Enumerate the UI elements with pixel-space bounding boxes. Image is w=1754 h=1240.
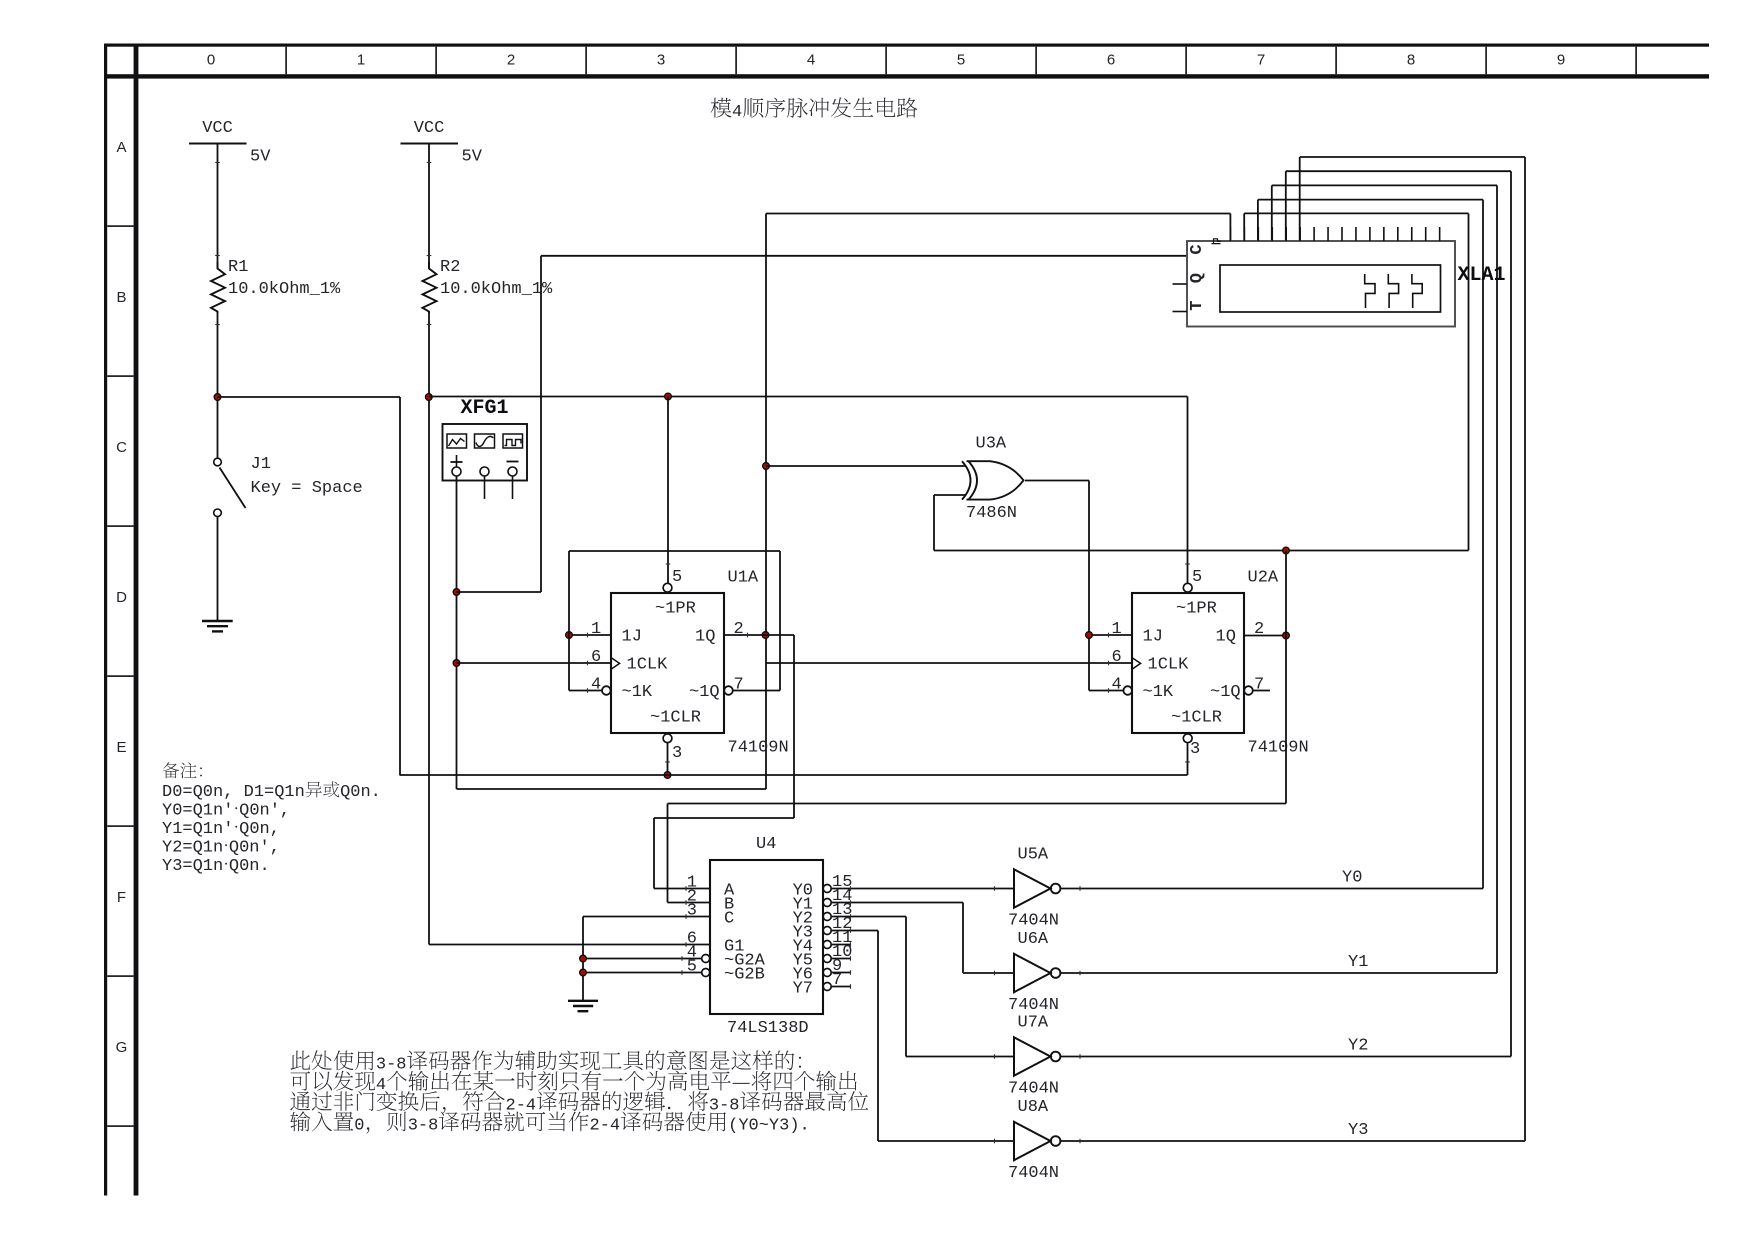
- title 模4顺序脉冲发生电路: [711, 97, 918, 122]
- junction U2A 1Q: [1283, 632, 1290, 639]
- inverter U5A 7404N: [1008, 846, 1060, 931]
- pin ticks: [215, 163, 1190, 1144]
- wire XFG1 plus lead down: [456, 476, 458, 789]
- wire VCC1 to R1: [217, 144, 219, 269]
- svg-text:F: F: [117, 889, 126, 906]
- junction CLK at U1A 1CLK: [453, 660, 460, 667]
- svg-text:5: 5: [1192, 568, 1202, 587]
- note text block: [162, 762, 381, 876]
- ground (J1): [202, 621, 233, 631]
- wire U4 Y6 stub: [831, 972, 851, 974]
- junction Q1 net at U2A 1Q branch: [1283, 547, 1290, 554]
- resistor R2: [423, 258, 554, 313]
- svg-text:5: 5: [957, 52, 965, 69]
- svg-text:1: 1: [357, 52, 365, 69]
- svg-text:T: T: [1188, 300, 1207, 310]
- svg-text:7: 7: [1254, 676, 1264, 695]
- XOR gate U3A 7486N: [962, 435, 1024, 524]
- wire J1 to ground: [217, 517, 219, 621]
- wire R1 to J1 node: [217, 312, 219, 458]
- svg-text:(Y0~Y3).: (Y0~Y3).: [728, 1117, 810, 1136]
- wire U2A pin5 preset lead: [1187, 397, 1189, 584]
- wire Q1 net horizontal: [934, 550, 1469, 552]
- wire XOR input B: [934, 495, 966, 551]
- svg-text:2: 2: [507, 52, 515, 69]
- svg-text:7404N: 7404N: [1008, 1080, 1059, 1099]
- wire clear net vertical: [399, 397, 401, 776]
- svg-text:U3A: U3A: [976, 435, 1007, 454]
- wire U4 Y0 to U5A: [831, 888, 1014, 890]
- flip-flop U1A 74109N: [591, 568, 789, 763]
- svg-text:8: 8: [1407, 52, 1415, 69]
- wire U4 G2B lead: [583, 972, 702, 974]
- svg-text:U5A: U5A: [1018, 846, 1049, 865]
- svg-text:5: 5: [687, 958, 697, 977]
- svg-text:C: C: [116, 439, 127, 456]
- wire VCC2 to R2: [428, 144, 430, 269]
- svg-text:Q0n.: Q0n.: [229, 857, 270, 876]
- wire U4 Y5 stub: [831, 958, 851, 960]
- svg-text:R2: R2: [440, 258, 460, 277]
- svg-text:VCC: VCC: [414, 119, 445, 138]
- svg-text:U7A: U7A: [1018, 1014, 1049, 1033]
- svg-text:Q: Q: [1188, 273, 1207, 283]
- svg-text:2: 2: [734, 620, 744, 639]
- wire XOR input A: [766, 465, 966, 467]
- svg-text:3-8: 3-8: [376, 1056, 407, 1075]
- wire U4 Y2 to U7A: [831, 917, 1014, 1057]
- svg-text:7404N: 7404N: [1008, 996, 1059, 1015]
- svg-text:5V: 5V: [462, 148, 483, 167]
- junction preset at U1A pin5: [665, 393, 672, 400]
- svg-text:J1: J1: [251, 455, 271, 474]
- svg-text:Key = Space: Key = Space: [251, 479, 363, 498]
- svg-text:3-8: 3-8: [408, 1117, 439, 1136]
- function generator XFG1: [443, 397, 528, 499]
- wire U4 C input to ground net: [583, 917, 710, 1001]
- wire U4 G2A lead: [583, 958, 702, 960]
- junction ground net at G2B: [580, 969, 587, 976]
- wire XOR output to U2A J/K: [1025, 481, 1132, 691]
- svg-text:Q0n',: Q0n',: [229, 839, 280, 858]
- svg-text:74LS138D: 74LS138D: [727, 1019, 809, 1038]
- junction XOR output at U2A 1J: [1086, 632, 1093, 639]
- svg-text:~1CLR: ~1CLR: [1171, 709, 1222, 728]
- svg-text:~1Q: ~1Q: [1210, 683, 1241, 702]
- svg-text:3: 3: [672, 744, 682, 763]
- svg-text:1J: 1J: [622, 628, 642, 647]
- svg-text:Y1: Y1: [1348, 953, 1368, 972]
- svg-text:~1K: ~1K: [622, 683, 653, 702]
- wire U4 G1 lead: [429, 944, 710, 946]
- ground (U4): [568, 1001, 598, 1011]
- logic analyzer XLA1: [1173, 227, 1506, 327]
- svg-text:R1: R1: [228, 258, 248, 277]
- svg-text:Y1=Q1n': Y1=Q1n': [162, 820, 233, 839]
- svg-text:XFG1: XFG1: [461, 397, 509, 420]
- svg-text:XLA1: XLA1: [1458, 264, 1506, 287]
- svg-text:4: 4: [807, 52, 815, 69]
- svg-text:U2A: U2A: [1248, 569, 1279, 588]
- wire U1A 1CLK lead: [457, 662, 612, 664]
- inverter U7A 7404N: [1008, 1014, 1060, 1099]
- wire Q1 to XLA1 channel 2: [1244, 213, 1468, 550]
- svg-text:U8A: U8A: [1018, 1098, 1049, 1117]
- svg-text:74109N: 74109N: [728, 739, 789, 758]
- svg-text:U1A: U1A: [728, 569, 759, 588]
- svg-text:6: 6: [591, 648, 601, 667]
- svg-text:~1CLR: ~1CLR: [650, 709, 701, 728]
- svg-text:U6A: U6A: [1018, 930, 1049, 949]
- svg-text:C: C: [1188, 244, 1207, 254]
- resistor R1: [211, 258, 341, 313]
- svg-text:1Q: 1Q: [1216, 628, 1236, 647]
- flip-flop U2A 74109N: [1112, 568, 1309, 759]
- switch J1: [214, 455, 363, 517]
- junction R1/J1/clear-net: [214, 394, 221, 401]
- wire Q0 to XLA1 channel 1: [766, 214, 1230, 242]
- wire U1A pin5 preset lead: [667, 397, 669, 584]
- svg-text:4: 4: [376, 1076, 386, 1095]
- wire Y3 to XLA1 channel 6: [1060, 157, 1525, 1141]
- wire U1A feedback J/K to notQ: [569, 551, 780, 691]
- svg-text:B: B: [116, 289, 126, 306]
- svg-text:Q0n',: Q0n',: [239, 802, 290, 821]
- svg-text:Y0=Q1n': Y0=Q1n': [162, 802, 233, 821]
- svg-text:7: 7: [1257, 52, 1265, 69]
- svg-text:~1K: ~1K: [1143, 683, 1174, 702]
- junction R2 node: [425, 394, 432, 401]
- svg-text:1CLK: 1CLK: [627, 656, 669, 675]
- svg-text:74109N: 74109N: [1248, 739, 1309, 758]
- junction U1A J/K feedback: [566, 632, 573, 639]
- svg-text:4: 4: [1112, 676, 1122, 695]
- wire Q1 net down to U4 B: [668, 551, 1287, 903]
- power VCC2: [401, 119, 483, 167]
- svg-text:7404N: 7404N: [1008, 1164, 1059, 1183]
- svg-text:3: 3: [1190, 740, 1200, 759]
- svg-text:VCC: VCC: [202, 119, 233, 138]
- junction ground net at G2A: [580, 955, 587, 962]
- svg-text:Q0n.: Q0n.: [340, 783, 381, 802]
- svg-text:2-4: 2-4: [590, 1117, 621, 1136]
- svg-text:6: 6: [1107, 52, 1115, 69]
- wire clear net horizontal: [218, 396, 401, 398]
- wire U2A 1Q output: [1244, 635, 1286, 637]
- wire U2A notQ stub: [1252, 690, 1270, 692]
- junction Q0 at U1A 1Q: [762, 632, 769, 639]
- svg-text:~G2B: ~G2B: [724, 966, 765, 985]
- svg-text:5: 5: [672, 568, 682, 587]
- svg-text:5V: 5V: [250, 148, 271, 167]
- svg-text:Y3: Y3: [1348, 1121, 1368, 1140]
- svg-text:C: C: [724, 910, 734, 929]
- wire U2A clear lead: [1187, 743, 1189, 775]
- wire U1A clear lead: [667, 743, 669, 775]
- decoder U4 74LS138D: [687, 835, 853, 1038]
- wire Y2 to XLA1 channel 5: [1060, 171, 1511, 1056]
- inverter U8A 7404N: [1008, 1098, 1060, 1183]
- svg-text:2-4: 2-4: [506, 1096, 537, 1115]
- svg-text:Y2=Q1n: Y2=Q1n: [162, 839, 223, 858]
- svg-text:1CLK: 1CLK: [1148, 656, 1190, 675]
- inverter U6A 7404N: [1008, 930, 1060, 1015]
- svg-text:3: 3: [657, 52, 665, 69]
- power VCC1: [189, 119, 271, 167]
- svg-text:4: 4: [732, 103, 742, 122]
- svg-text:Y3=Q1n: Y3=Q1n: [162, 857, 223, 876]
- svg-text:0: 0: [207, 52, 215, 69]
- svg-text:~1PR: ~1PR: [1176, 600, 1217, 619]
- wire CLK return segment: [457, 788, 767, 790]
- wire clear net to U2A: [400, 774, 1188, 776]
- svg-text:9: 9: [1557, 52, 1565, 69]
- svg-text:4: 4: [591, 676, 601, 695]
- wire U4 Y3 to U8A: [831, 931, 1014, 1142]
- svg-text:E: E: [116, 739, 126, 756]
- wire U1A 1J lead: [569, 634, 611, 636]
- svg-text:A: A: [116, 139, 126, 156]
- svg-text:10.0kOhm_1%: 10.0kOhm_1%: [440, 280, 553, 299]
- wire R2 node down to U4 G1: [428, 312, 430, 945]
- junction Q0 at XOR input A: [763, 463, 770, 470]
- wire CLK branch to logic analyzer C: [457, 256, 1188, 592]
- svg-text:G: G: [116, 1039, 128, 1056]
- svg-text:3-8: 3-8: [709, 1096, 740, 1115]
- wire Y1 to XLA1 channel 4: [1060, 185, 1497, 973]
- svg-text:Y0: Y0: [1342, 869, 1362, 888]
- wire U4 Y4 stub: [831, 944, 851, 946]
- svg-text:1J: 1J: [1143, 628, 1163, 647]
- wire U1A 1Q output: [654, 635, 794, 889]
- svg-text:Y7: Y7: [793, 980, 813, 999]
- wire U4 Y1 to U6A: [831, 903, 1014, 974]
- wire Q0 net vertical: [765, 214, 767, 790]
- svg-text:U4: U4: [756, 835, 776, 854]
- junction clear at U1A pin3: [664, 772, 671, 779]
- svg-text:0: 0: [354, 1117, 364, 1136]
- svg-text:3: 3: [687, 902, 697, 921]
- junction CLK net branch: [453, 589, 460, 596]
- svg-text:D0=Q0n, D1=Q1n: D0=Q0n, D1=Q1n: [162, 783, 305, 802]
- svg-text:10.0kOhm_1%: 10.0kOhm_1%: [228, 280, 341, 299]
- svg-text:7: 7: [734, 676, 744, 695]
- wire preset net horizontal: [429, 396, 1188, 398]
- svg-text:~1PR: ~1PR: [655, 600, 696, 619]
- svg-text:1: 1: [1112, 620, 1122, 639]
- svg-text:D: D: [116, 589, 127, 606]
- annotation paragraph: [290, 1050, 868, 1135]
- svg-text:7486N: 7486N: [966, 504, 1017, 523]
- svg-text:1Q: 1Q: [695, 628, 715, 647]
- wire U4 Y7 stub: [831, 986, 851, 988]
- wire Y0 to XLA1 channel 3: [1060, 200, 1483, 889]
- svg-text:1: 1: [591, 620, 601, 639]
- svg-text:Q0n,: Q0n,: [239, 820, 280, 839]
- svg-text:6: 6: [1112, 648, 1122, 667]
- svg-text:Y2: Y2: [1348, 1037, 1368, 1056]
- svg-text:7404N: 7404N: [1008, 912, 1059, 931]
- wire U2A 1CLK lead: [766, 662, 1132, 664]
- svg-text:~1Q: ~1Q: [689, 683, 720, 702]
